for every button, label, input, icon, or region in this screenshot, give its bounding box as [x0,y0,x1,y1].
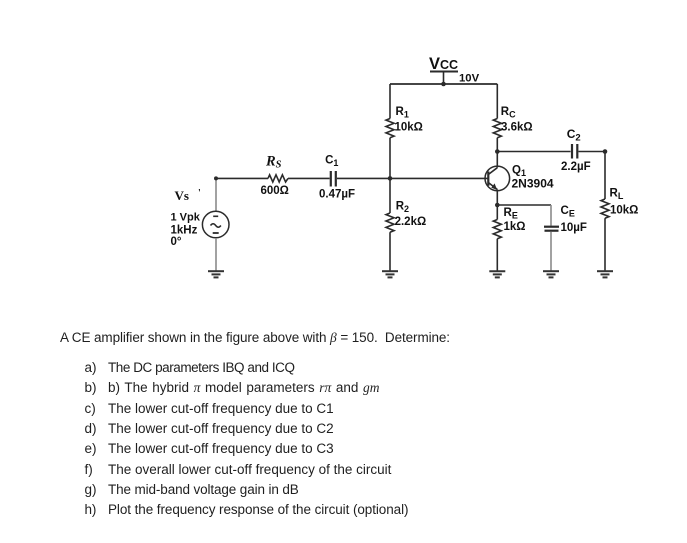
svg-text:R2: R2 [396,201,409,215]
svg-text:0.47µF: 0.47µF [319,188,355,200]
svg-text:': ' [198,188,201,199]
svg-text:R1: R1 [396,106,409,120]
svg-text:3.6kΩ: 3.6kΩ [501,122,533,134]
svg-text:10kΩ: 10kΩ [610,205,638,217]
svg-text:2.2µF: 2.2µF [561,161,591,173]
svg-text:1 Vpk: 1 Vpk [171,211,201,223]
svg-text:1kΩ: 1kΩ [504,221,526,233]
svg-text:C1: C1 [325,155,338,169]
svg-text:10V: 10V [459,73,480,85]
svg-text:CE: CE [561,205,575,219]
svg-text:600Ω: 600Ω [261,185,289,197]
svg-text:RL: RL [610,188,624,202]
svg-text:10µF: 10µF [561,222,587,234]
svg-text:1kHz: 1kHz [171,225,198,237]
svg-text:RS: RS [265,153,282,170]
svg-text:Vs: Vs [175,188,189,203]
svg-text:0°: 0° [171,236,182,248]
svg-text:RE: RE [504,207,518,221]
svg-text:C2: C2 [567,127,581,144]
svg-text:VCC: VCC [429,55,458,73]
svg-text:RC: RC [501,106,516,120]
svg-text:2.2kΩ: 2.2kΩ [395,216,427,228]
svg-text:10kΩ: 10kΩ [395,122,423,134]
svg-text:2N3904: 2N3904 [512,177,554,191]
